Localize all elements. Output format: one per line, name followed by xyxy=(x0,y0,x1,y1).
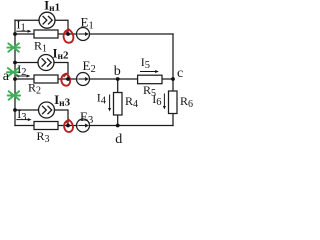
resistor R2 xyxy=(34,75,58,83)
resistor R6 xyxy=(169,91,178,114)
junction row2 right xyxy=(66,77,70,81)
node b junction xyxy=(116,77,120,81)
svg-text:R4: R4 xyxy=(125,94,138,110)
wire Ih2 parallel xyxy=(15,63,68,80)
svg-text:b: b xyxy=(114,64,121,79)
svg-text:I5: I5 xyxy=(141,55,150,71)
svg-text:R6: R6 xyxy=(180,94,193,110)
green cross X3 xyxy=(8,91,20,99)
svg-text:d: d xyxy=(115,132,122,147)
node c junction xyxy=(171,77,175,81)
wire branch1 xyxy=(15,33,173,35)
svg-text:a: a xyxy=(3,69,10,84)
current source Ih3 xyxy=(39,102,55,118)
svg-text:I4: I4 xyxy=(97,91,107,107)
svg-text:R1: R1 xyxy=(34,39,47,55)
junction tap2-bus xyxy=(13,61,17,65)
green cross X1 xyxy=(7,43,19,51)
svg-text:c: c xyxy=(177,66,183,81)
wire branch2 xyxy=(15,78,173,80)
green cross X2 xyxy=(7,68,19,76)
resistor R4 xyxy=(114,93,123,116)
emf E1 xyxy=(77,28,90,41)
emf E3 xyxy=(77,119,90,132)
node a junction xyxy=(13,77,17,81)
wire right column xyxy=(172,34,174,126)
junction row1 right xyxy=(66,32,70,36)
junction node row1-bus xyxy=(13,32,17,36)
wire Ih3 parallel xyxy=(15,110,68,126)
svg-text:E1: E1 xyxy=(81,15,94,32)
wire Ih1 parallel top xyxy=(15,20,68,34)
emf E2 xyxy=(77,73,90,86)
svg-text:Ін3: Ін3 xyxy=(54,93,70,109)
node d junction xyxy=(116,124,120,128)
wire left bus xyxy=(14,20,16,125)
svg-text:Ін1: Ін1 xyxy=(44,0,60,14)
red loop row1 xyxy=(64,30,74,43)
red loop row3 xyxy=(64,120,73,132)
svg-text:E3: E3 xyxy=(80,109,93,126)
current source Ih2 xyxy=(38,55,54,71)
svg-text:E2: E2 xyxy=(83,58,96,75)
current source Ih1 xyxy=(39,12,55,28)
resistor R3 xyxy=(34,122,58,130)
svg-text:R3: R3 xyxy=(37,129,50,145)
junction tap3-bus xyxy=(13,108,17,112)
junction row3 right xyxy=(66,124,70,128)
svg-text:I6: I6 xyxy=(152,92,161,108)
wire b column xyxy=(117,79,119,126)
red loop row2 xyxy=(61,74,70,86)
resistor R5 xyxy=(138,75,162,84)
resistor R1 xyxy=(34,30,58,38)
wire branch3 xyxy=(15,125,173,127)
svg-text:Ін2: Ін2 xyxy=(53,46,69,62)
